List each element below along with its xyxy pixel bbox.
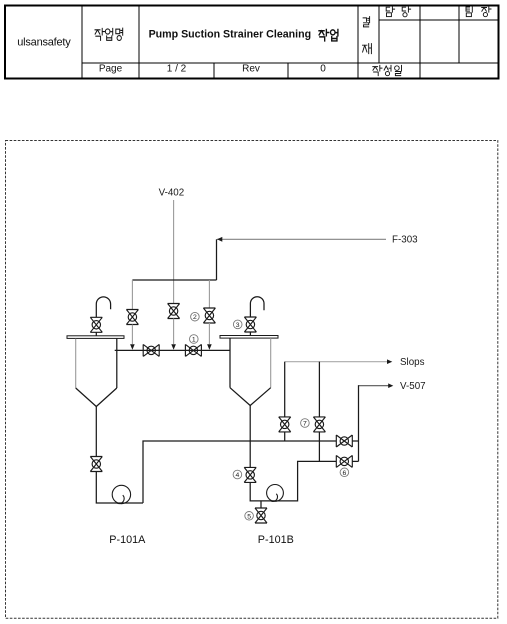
svg-text:1: 1	[192, 337, 196, 344]
wire drop to valve 2 x=209.4	[208, 280, 210, 308]
strainer vessel A left wall	[75, 339, 77, 388]
wire slops drop 1	[284, 362, 286, 417]
svg-text:1 / 2: 1 / 2	[167, 64, 187, 75]
vent valve A	[90, 317, 102, 332]
pump A suction valve	[90, 457, 102, 472]
wire below V-402 valve to arrow	[173, 319, 175, 345]
text 팀 장	[466, 6, 491, 16]
pump P-101A volute hook	[117, 495, 124, 503]
strainer vessel B lid	[220, 336, 278, 339]
wire below valve A to arrow	[131, 325, 133, 345]
wire valve 4 to pump B	[250, 461, 336, 501]
table vertical line x=459	[458, 7, 460, 64]
strainer vessel B cone bottom	[230, 388, 271, 406]
table header sub-row line y=20	[379, 19, 498, 21]
arrow into manifold x=132.4	[130, 344, 135, 350]
valve 7	[313, 417, 325, 432]
strainer vessel B right wall	[270, 338, 272, 388]
wire V-402 down line	[173, 200, 175, 304]
svg-text:Slops: Slops	[400, 357, 425, 368]
label circled 7	[301, 419, 310, 428]
label circled 2	[191, 312, 200, 321]
strainer vessel A lid	[67, 336, 124, 339]
strainer vessel B left wall	[229, 338, 231, 388]
label circled 5	[245, 512, 254, 521]
vent valve B gooseneck	[250, 297, 264, 317]
svg-text:Rev: Rev	[242, 64, 260, 75]
svg-text:3: 3	[236, 322, 240, 329]
table vertical line x=82	[81, 7, 83, 78]
valve 6	[336, 455, 352, 467]
svg-text:0: 0	[320, 64, 326, 75]
svg-text:Pump Suction Strainer Cleaning: Pump Suction Strainer Cleaning	[149, 29, 312, 41]
pump P-101B circle	[267, 485, 284, 502]
table vertical line x=214 row3	[213, 63, 215, 78]
label circled 6	[340, 468, 349, 477]
svg-text:P-101B: P-101B	[258, 534, 294, 546]
table vertical line x=379	[378, 7, 380, 64]
strainer vessel A right wall	[116, 339, 118, 388]
svg-text:V-507: V-507	[400, 381, 426, 392]
table vertical line x=288 row3	[287, 63, 289, 78]
arrow into manifold x=209.4	[207, 344, 212, 350]
arrow V-507	[388, 383, 393, 388]
strainer vessel A cone bottom	[76, 388, 117, 407]
svg-text:Page: Page	[99, 64, 123, 75]
dashed diagram border	[6, 141, 498, 619]
valve 2 (circled) on drop line	[203, 308, 215, 323]
svg-text:ulsansafety: ulsansafety	[17, 36, 71, 48]
label circled 3	[233, 320, 242, 329]
table vertical line x=420	[419, 7, 421, 78]
label circled 1	[190, 335, 199, 344]
table vertical line x=139	[138, 7, 140, 78]
valve on V-402 line	[168, 304, 180, 319]
valve 6-upper on discharge line	[336, 435, 352, 447]
manifold line y=350.4	[115, 349, 231, 351]
svg-text:6: 6	[343, 470, 347, 477]
wire below valve 2 to arrow	[208, 323, 210, 344]
svg-text:V-402: V-402	[159, 188, 185, 199]
vent valve B stem	[249, 332, 251, 336]
arrow into manifold x=173.6	[171, 344, 176, 350]
table outer border	[5, 6, 499, 79]
valve on x=132.4 line	[126, 310, 138, 325]
wire drop to valve A x=132.4	[131, 280, 133, 310]
pump A discharge riser	[143, 441, 336, 503]
wire strainer A outlet pipe	[95, 407, 97, 457]
wire valve 6 to riser	[352, 460, 358, 462]
svg-text:7: 7	[303, 421, 307, 428]
text 담 당	[386, 6, 410, 16]
text 결 재	[363, 17, 372, 54]
manifold valve left	[143, 344, 159, 356]
valve on drop 1	[279, 417, 291, 432]
arrow slops	[387, 359, 392, 364]
arrow F-303 left	[217, 237, 222, 242]
valve 5 stem	[260, 501, 262, 508]
slops header line	[285, 361, 388, 363]
wire below valve 7 down to y=461	[318, 432, 320, 462]
svg-text:2: 2	[193, 314, 197, 321]
wire valve to pump A	[96, 472, 143, 504]
table main row divider y=63	[82, 62, 498, 64]
wire valve 6-upper to riser	[352, 440, 358, 442]
valve 4	[244, 467, 256, 482]
vent valve A gooseneck	[96, 297, 110, 317]
svg-text:4: 4	[236, 472, 240, 479]
wire top header y=280	[132, 279, 216, 281]
pump P-101A circle	[112, 485, 130, 503]
wire strainer B outlet pipe	[249, 406, 251, 468]
wire slops drop 2	[318, 362, 320, 417]
valve 1 (circled) on manifold	[185, 344, 201, 356]
text 작성일	[373, 65, 402, 75]
pump P-101B volute hook	[271, 494, 278, 502]
wire F-303 drop	[216, 239, 218, 280]
wire below drop-1 valve	[284, 432, 286, 441]
table vertical line x=358	[357, 7, 359, 78]
vent valve B	[244, 317, 256, 332]
valve 5	[255, 508, 267, 523]
wire F-303 horizontal line	[217, 238, 386, 240]
V-507 line	[359, 385, 389, 387]
vent valve A stem	[95, 332, 97, 336]
text title 작업	[319, 29, 338, 41]
text 작업명	[95, 28, 123, 40]
svg-text:5: 5	[247, 513, 251, 520]
label circled 4	[233, 470, 242, 479]
svg-text:F-303: F-303	[392, 235, 418, 246]
svg-text:P-101A: P-101A	[109, 534, 146, 546]
